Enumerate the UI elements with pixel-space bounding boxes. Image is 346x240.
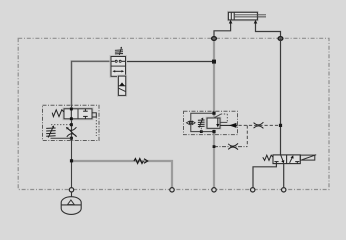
wire left supply line — [72, 61, 112, 189]
V2 spring — [52, 110, 64, 117]
junction at P line — [212, 60, 216, 64]
cartridge pilot line — [214, 114, 227, 122]
port bottom 1 — [69, 188, 73, 192]
cartridge flow arrow — [216, 118, 219, 127]
junction — [213, 145, 216, 148]
DV1 right path arrow — [290, 155, 294, 162]
PRV1 orifice cell — [112, 60, 126, 62]
wire spring bottom — [51, 137, 72, 139]
DV1 right blocked port — [295, 162, 299, 164]
relief spring adjustable — [198, 119, 205, 128]
pilot branch horizontal — [214, 146, 247, 148]
wire valve to net P — [126, 61, 215, 63]
DV1 solenoid — [300, 155, 316, 160]
variable throttle in left box — [67, 127, 77, 137]
adjustable spring relief — [46, 127, 55, 138]
junction — [279, 124, 282, 127]
junction tank tee — [70, 159, 73, 162]
port marker top B — [278, 37, 283, 41]
directional valve DV1 body — [273, 155, 300, 164]
pressure reducing valve PRV1 body — [111, 57, 126, 77]
throttle on branch — [228, 143, 238, 149]
V2 blocked ports — [83, 109, 88, 119]
port bottom 4 — [251, 188, 255, 192]
PRV1 pilot solenoid box — [118, 76, 125, 95]
port bottom 5 — [282, 188, 286, 192]
junction — [212, 112, 215, 115]
port bottom 2 — [170, 188, 174, 192]
relief cartridge body — [207, 118, 220, 128]
wire DV1 tank to port — [253, 164, 276, 188]
PRV1 double arrow cell — [112, 70, 124, 72]
V2 pilot line right — [95, 117, 97, 136]
junction — [200, 130, 203, 133]
PRV1 pilot triangle — [120, 82, 125, 85]
wire cylinder B to port — [256, 24, 281, 39]
DV1 left blocked port — [274, 162, 278, 164]
junction — [70, 123, 73, 126]
pilot branch down — [246, 125, 248, 146]
left subassembly box — [43, 105, 100, 140]
V2 pilot line left — [51, 124, 71, 126]
port bottom 3 — [212, 188, 216, 192]
cylinder port arrow B — [254, 20, 258, 24]
middle subassembly box — [184, 111, 238, 134]
pilot dashed line to net B — [239, 124, 281, 126]
enclosure manifold boundary — [18, 38, 329, 189]
wire net B vertical to valve — [280, 39, 282, 155]
DV1 spring — [263, 155, 273, 160]
unloading valve V2 body — [64, 109, 92, 119]
cylinder — [228, 12, 266, 20]
wire DV1 out to port — [283, 164, 285, 188]
cylinder port arrow A — [229, 20, 233, 24]
cartridge outlet with arrow — [220, 124, 238, 126]
relief spring drain — [200, 128, 202, 132]
wire cylinder A to port — [214, 24, 231, 39]
wire gray net T (tank line horizontal) — [72, 161, 173, 189]
relief loop wire — [191, 113, 214, 131]
pressure reducing valve PRV1 spring — [115, 48, 123, 56]
throttle on pilot line — [254, 122, 264, 128]
restrictor on tank line — [134, 159, 148, 164]
PRV1 solenoid diagonal — [119, 88, 126, 91]
port marker top A — [212, 37, 217, 41]
junction — [212, 130, 215, 133]
V2 flow path arrow — [70, 108, 73, 121]
V2 pilot tab — [92, 113, 96, 117]
wire gray net P (main vertical) — [213, 39, 215, 190]
DV1 left path arrow — [281, 155, 285, 163]
accumulator — [61, 192, 81, 214]
orifice eye — [186, 121, 195, 124]
junction — [70, 137, 73, 140]
